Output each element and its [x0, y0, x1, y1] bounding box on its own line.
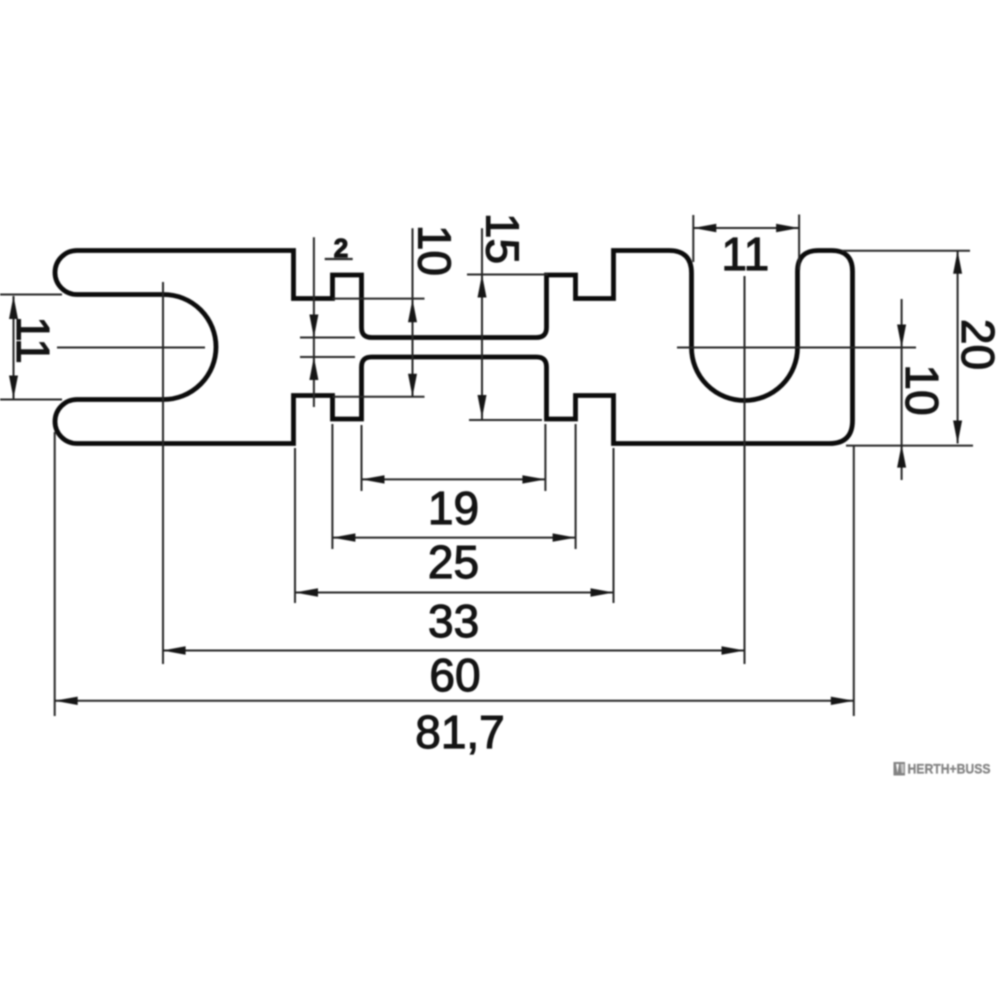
extension lines 33 — [294, 448, 296, 603]
svg-text:20: 20 — [952, 319, 1000, 370]
extension line 81,7 left — [54, 432, 56, 716]
centerline fork horizontal — [57, 347, 205, 349]
dimension line mid 15 — [481, 228, 483, 419]
dimension line 25 — [332, 537, 575, 539]
dimension line mid 10 — [412, 228, 414, 396]
arrows mid 15 — [478, 275, 487, 298]
arrows 19 — [362, 475, 385, 483]
svg-text:81,7: 81,7 — [415, 706, 505, 758]
extension lines right 20 and 10 — [842, 250, 970, 252]
arrows left 11 — [9, 296, 18, 319]
arrows 33 — [295, 588, 318, 596]
logo herth+buss — [894, 761, 991, 777]
svg-text:33: 33 — [428, 595, 479, 647]
svg-text:60: 60 — [429, 649, 480, 701]
extension lines top 11 — [692, 215, 694, 262]
dimension line 20 — [957, 251, 959, 444]
fuse strip outline — [55, 251, 853, 444]
svg-text:25: 25 — [428, 536, 479, 588]
svg-text:11: 11 — [721, 228, 769, 280]
arrows 20 — [953, 251, 962, 274]
dimension line top 11 — [693, 227, 799, 229]
extension lines 25 — [331, 424, 333, 549]
dimension line 60 — [163, 650, 745, 652]
arrows 25 — [332, 533, 355, 541]
dimension line 81,7 — [55, 700, 854, 702]
dimension line right 10 — [901, 299, 903, 480]
extension line 81,7 right — [853, 446, 855, 716]
svg-text:HERTH+BUSS: HERTH+BUSS — [908, 761, 991, 777]
svg-text:2: 2 — [334, 233, 348, 263]
svg-text:10: 10 — [896, 364, 948, 415]
arrows 60 — [163, 646, 186, 654]
extension lines left 11 — [0, 294, 62, 296]
extension lines strip thickness 2 — [300, 337, 355, 339]
svg-text:15: 15 — [476, 213, 528, 264]
dimension line left 11 — [13, 296, 15, 399]
extension lines mid 10 — [333, 298, 425, 300]
arrows 81,7 — [55, 697, 78, 705]
underline of 2 — [325, 258, 353, 260]
arrows mid 10 — [408, 299, 417, 322]
dimension line strip 2 — [313, 237, 315, 407]
arrows right 10 (outside, pointing in) — [897, 325, 906, 348]
dimension line 33 — [295, 592, 614, 594]
svg-text:11: 11 — [7, 316, 59, 364]
extension lines 19 — [361, 425, 363, 491]
arrows strip 2 (outside, pointing in) — [309, 315, 318, 338]
svg-text:19: 19 — [428, 482, 479, 534]
arrows top 11 — [693, 224, 716, 232]
centerline right slot horizontal — [677, 347, 916, 349]
dimension line 19 — [362, 478, 546, 480]
centerline fork vertical — [162, 282, 164, 664]
extension lines mid 15 — [467, 274, 548, 276]
svg-text:10: 10 — [409, 225, 461, 276]
centerline right slot vertical — [744, 276, 746, 664]
